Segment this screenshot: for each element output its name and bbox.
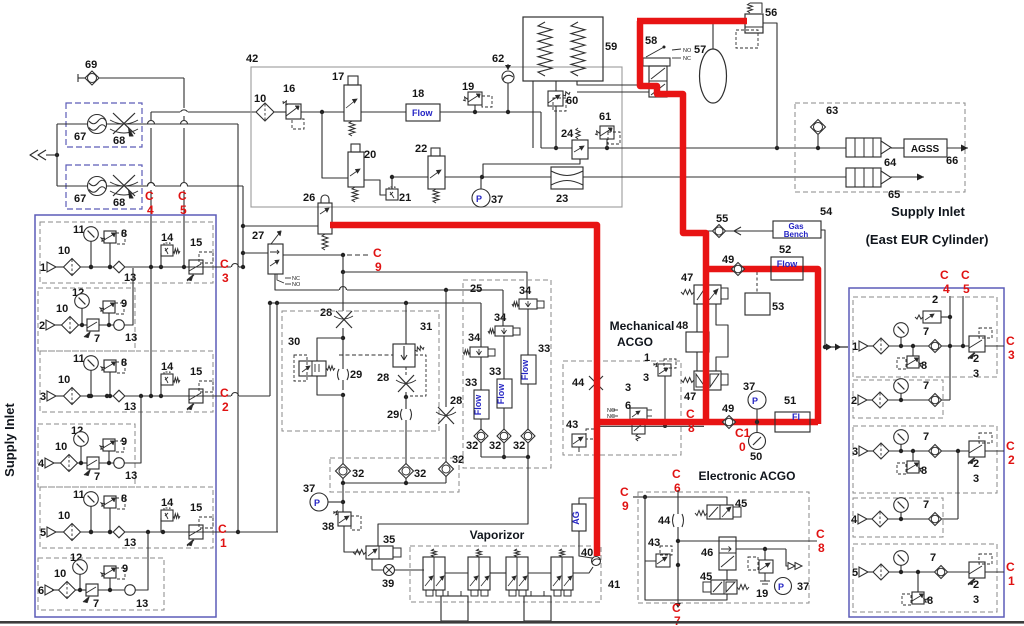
svg-text:32: 32 (513, 440, 525, 452)
svg-text:37: 37 (491, 194, 503, 206)
svg-text:28: 28 (450, 395, 462, 407)
wire elec center column C6-C7 (677, 490, 679, 514)
dashed wire 52-53 (756, 272, 758, 293)
svg-text:8: 8 (121, 493, 127, 505)
svg-text:2: 2 (1008, 453, 1015, 467)
regulator 8 right row3 (907, 461, 919, 473)
svg-text:13: 13 (124, 401, 136, 413)
block 25 dashed box (463, 280, 551, 468)
wire 62 to main (507, 83, 509, 112)
wire row1 flowmeter line (57, 123, 88, 125)
wire bus B to 27 (241, 251, 245, 255)
mechanical ACGO dashed box (563, 361, 681, 455)
svg-text:C: C (672, 467, 681, 481)
wire row3 exit to C2 (203, 395, 231, 397)
svg-text:C: C (220, 386, 229, 400)
wire 56 to AGSS line (763, 23, 777, 148)
box 42 outline (251, 67, 622, 207)
flowmeter 67 row2 (88, 177, 107, 196)
check valve 13 row 3 (113, 390, 125, 402)
svg-text:AG: AG (571, 511, 581, 525)
svg-text:3: 3 (222, 271, 229, 285)
svg-text:15: 15 (190, 366, 202, 378)
relief valve 56 (748, 3, 753, 13)
check 32 c (439, 462, 454, 477)
labels NO NC valve 58 (672, 49, 681, 50)
svg-text:16: 16 (283, 83, 295, 95)
wire row 2 (55, 324, 62, 326)
svg-text:C: C (672, 601, 681, 615)
svg-text:3: 3 (973, 368, 979, 380)
regulator 2/3 right row1 (969, 336, 985, 352)
check 32 b (399, 464, 414, 479)
svg-text:8: 8 (921, 465, 927, 477)
node C5 column x184 (183, 78, 185, 108)
svg-text:2: 2 (222, 400, 229, 414)
group dashed box 28-31 (282, 311, 439, 431)
wire 18 to right (440, 111, 541, 113)
vaporizer valve 4 (560, 549, 565, 557)
svg-text:13: 13 (136, 598, 148, 610)
wire pilot to manifold (664, 376, 666, 426)
gauge 50 (749, 433, 766, 450)
svg-text:19: 19 (756, 588, 768, 600)
regulator 8 right row5 (912, 592, 924, 604)
svg-text:11: 11 (73, 489, 85, 501)
svg-text:14: 14 (161, 361, 174, 373)
solenoid below 6 (632, 419, 645, 434)
regulator 8 right row1 (907, 356, 919, 368)
svg-text:C: C (145, 189, 154, 203)
supply row 6 dashed box (38, 558, 164, 610)
filter right row1 (873, 338, 889, 354)
junction row 5 (89, 530, 93, 534)
junction row 1 (149, 265, 153, 269)
svg-text:35: 35 (383, 534, 395, 546)
filter right row4 (872, 511, 888, 527)
svg-text:7: 7 (674, 614, 681, 626)
svg-text:62: 62 (492, 53, 504, 65)
wire row2 flowmeter line (57, 185, 88, 187)
svg-text:7: 7 (94, 471, 100, 483)
supply row 3 dashed box (40, 351, 213, 412)
svg-text:NC: NC (683, 56, 691, 62)
junction row 3 (159, 394, 163, 398)
wire 27 out to node C9 (283, 254, 343, 256)
svg-text:32: 32 (452, 454, 464, 466)
svg-text:4: 4 (851, 514, 858, 526)
svg-text:11: 11 (73, 353, 85, 365)
orifice 39 (384, 565, 395, 576)
AGSS box 66 (904, 139, 947, 157)
regulator 2/3 right row5 (969, 562, 985, 578)
supply inlet outer box (blue) (35, 215, 216, 617)
svg-text:60: 60 (566, 95, 578, 107)
check 49 top over red (732, 263, 745, 276)
svg-text:28: 28 (377, 372, 389, 384)
right supply outer box (blue) (849, 288, 1004, 617)
svg-text:8: 8 (121, 357, 127, 369)
check valve 13 row 5 (113, 526, 125, 538)
junction row 3 (87, 394, 91, 398)
junction row 1 (159, 265, 163, 269)
regulator 7 row 6 (86, 584, 98, 596)
svg-text:2: 2 (973, 579, 979, 591)
wire branch1 (480, 303, 482, 347)
wire row 6 (52, 589, 59, 591)
orifice 29a (338, 369, 349, 380)
svg-text:55: 55 (716, 213, 728, 225)
svg-text:1: 1 (852, 341, 858, 353)
check valve 13 row 2 (114, 320, 125, 331)
svg-text:C: C (1006, 334, 1015, 348)
right row 1 dashed box (853, 297, 997, 377)
svg-text:15: 15 (190, 237, 202, 249)
wire 35 to 39 (372, 559, 383, 570)
svg-text:10: 10 (55, 441, 67, 453)
svg-text:32: 32 (414, 468, 426, 480)
check 32 branch2 (497, 429, 511, 443)
svg-text:10: 10 (58, 510, 70, 522)
svg-text:15: 15 (190, 502, 202, 514)
wire row6 link to row5 (135, 532, 148, 590)
svg-text:45: 45 (700, 571, 712, 583)
wire C1 riser x277 (276, 303, 278, 532)
check 32 branch1 (474, 429, 488, 443)
wire 59 left leg to 62 node (532, 81, 534, 148)
svg-text:Fl: Fl (792, 412, 800, 422)
svg-text:C: C (220, 257, 229, 271)
labels NC NO valve 27 (277, 274, 284, 283)
svg-text:68: 68 (113, 197, 125, 209)
flowmeter box row1 (blue dashed) (66, 103, 142, 147)
svg-text:30: 30 (288, 336, 300, 348)
wire 27 bottom branch (275, 274, 339, 290)
svg-text:13: 13 (124, 537, 136, 549)
junction row 5 (146, 530, 150, 534)
svg-text:29: 29 (350, 369, 362, 381)
svg-text:19: 19 (462, 81, 474, 93)
svg-text:31: 31 (420, 321, 432, 333)
svg-text:59: 59 (605, 41, 617, 53)
svg-text:1: 1 (644, 352, 650, 364)
svg-text:28: 28 (320, 307, 332, 319)
svg-text:7: 7 (94, 333, 100, 345)
svg-text:Supply Inlet: Supply Inlet (891, 204, 965, 219)
svg-text:Bench: Bench (784, 230, 809, 239)
wire 39 into vaporizer (395, 569, 424, 571)
svg-text:Electronic ACGO: Electronic ACGO (699, 469, 796, 483)
svg-text:33: 33 (465, 377, 477, 389)
gauge P 37 box42 (472, 189, 490, 207)
svg-text:48: 48 (676, 320, 688, 332)
wire y272 line to branch 34c (343, 272, 527, 299)
wire 17 to flow 18 (361, 111, 406, 113)
svg-text:4: 4 (943, 282, 950, 296)
svg-text:8: 8 (921, 360, 927, 372)
svg-text:C: C (620, 485, 629, 499)
svg-text:3: 3 (852, 446, 858, 458)
supply row 2 dashed box (38, 288, 135, 351)
vaporizer valve 3 (515, 549, 520, 557)
check valve 13 row 4 (114, 458, 125, 469)
svg-text:37: 37 (303, 483, 315, 495)
svg-text:NO: NO (292, 282, 301, 288)
svg-text:11: 11 (73, 224, 85, 236)
AGSS tube AG (572, 504, 586, 531)
svg-text:3: 3 (625, 382, 631, 394)
svg-text:42: 42 (246, 53, 258, 65)
sensor 53 (745, 293, 770, 315)
svg-text:34: 34 (468, 332, 481, 344)
wire main corner into AGSS line (540, 112, 542, 148)
svg-text:44: 44 (572, 377, 585, 389)
junction row 1 (108, 265, 112, 269)
svg-text:2: 2 (851, 395, 857, 407)
svg-text:7: 7 (923, 431, 929, 443)
wire gas bench to right box (821, 230, 825, 347)
filter right row5 (873, 564, 889, 580)
svg-text:10: 10 (58, 245, 70, 257)
wire row 1 (56, 266, 64, 268)
right row 3 dashed box (853, 426, 997, 493)
red pipe top to relief 56 (637, 18, 747, 25)
wire branch2 (502, 290, 504, 326)
svg-text:Flow: Flow (496, 383, 506, 404)
wire branch3 (527, 309, 529, 355)
svg-text:AGSS: AGSS (911, 144, 940, 155)
filter right row2 (872, 392, 888, 408)
venturi 23 (551, 167, 583, 189)
column C5 right (962, 296, 964, 345)
flowmeter 67 row1 (88, 115, 107, 134)
wire 31 feed (405, 303, 407, 344)
needle valve 68 row1 (113, 113, 135, 134)
wire row 3 (56, 395, 64, 397)
svg-text:3: 3 (40, 391, 46, 403)
wire main line y112 (274, 111, 286, 113)
svg-text:25: 25 (470, 283, 482, 295)
svg-text:8: 8 (927, 595, 933, 607)
svg-text:56: 56 (765, 7, 777, 19)
svg-text:52: 52 (779, 244, 791, 256)
junction row 1 (182, 265, 186, 269)
right row 4 dashed box (853, 498, 943, 537)
svg-text:1: 1 (40, 262, 46, 274)
wire row 4 (54, 462, 61, 464)
svg-text:13: 13 (124, 272, 136, 284)
svg-text:Flow: Flow (412, 108, 433, 118)
flow tube 51 over red (775, 412, 810, 432)
svg-text:P: P (314, 498, 320, 508)
svg-text:Flow: Flow (520, 359, 530, 380)
solenoid valve 47 bottom (681, 378, 694, 383)
wire manifold y457 to vaporizer feed (481, 456, 528, 458)
svg-text:49: 49 (722, 403, 734, 415)
svg-text:41: 41 (608, 579, 620, 591)
svg-text:7: 7 (923, 380, 929, 392)
svg-text:7: 7 (930, 552, 936, 564)
wire 47-48 column (696, 304, 698, 332)
svg-text:C: C (961, 268, 970, 282)
svg-text:C: C (1006, 439, 1015, 453)
svg-text:17: 17 (332, 71, 344, 83)
electronic ACGO dashed box (638, 492, 809, 603)
wire venturi to AGSS line (583, 176, 846, 178)
dashed box right of 31 (410, 355, 426, 396)
junction right row3 (956, 449, 960, 453)
wire 59 right leg to valve 58 (577, 81, 649, 85)
svg-text:65: 65 (888, 189, 900, 201)
check valve 13 row 6 (125, 585, 136, 596)
svg-text:68: 68 (113, 135, 125, 147)
svg-text:50: 50 (750, 451, 762, 463)
wire right row2 (867, 399, 872, 401)
check row dashed box (left 32 group) (330, 458, 459, 492)
wire from 69 to C5 column (99, 77, 184, 79)
red pipe ACGO loop (706, 269, 818, 424)
svg-text:5: 5 (852, 567, 858, 579)
check valve 13 row 1 (113, 261, 125, 273)
wire elec top line (645, 497, 727, 505)
supply row 4 dashed box (38, 424, 135, 487)
wire node down from C9 to y272 line (342, 255, 344, 272)
svg-text:38: 38 (322, 521, 334, 533)
red pipe from flush valve 26 to vaporizer outlet check 40 (330, 225, 597, 556)
svg-text:32: 32 (466, 440, 478, 452)
wire valve30 connections (317, 338, 343, 361)
wire C8 line (678, 540, 817, 542)
wire right row4 (867, 518, 872, 520)
wire row5 exit to C1 node (203, 531, 238, 533)
svg-text:3: 3 (1008, 348, 1015, 362)
muffler 65 (846, 168, 881, 187)
wire main supply into box 42 (151, 111, 180, 113)
junctions right row1 (948, 344, 952, 348)
wire right row1 (868, 345, 873, 347)
double arrow vent (788, 563, 795, 570)
flow tube 52 over red (771, 257, 803, 280)
svg-text:49: 49 (722, 254, 734, 266)
svg-text:7: 7 (93, 598, 99, 610)
svg-text:Flow: Flow (777, 259, 798, 269)
wire 47b down (706, 390, 708, 421)
junction row 5 (108, 530, 112, 534)
right row 2 dashed box (853, 380, 943, 418)
wire C2 riser x270 (269, 303, 271, 396)
wire y303 distribution line (270, 302, 481, 304)
wire row2 link to row1 (124, 268, 133, 325)
svg-text:53: 53 (772, 301, 784, 313)
svg-text:2: 2 (973, 353, 979, 365)
regulator 60 (548, 91, 563, 106)
junction row 1 (89, 265, 93, 269)
svg-text:P: P (752, 396, 758, 406)
bracket right of 48 (716, 304, 728, 371)
wire under checks (342, 478, 344, 483)
wire 46 to 45b (726, 570, 728, 580)
check 32 branch3 (521, 429, 535, 443)
svg-text:ACGO: ACGO (617, 335, 653, 349)
svg-text:14: 14 (161, 232, 174, 244)
bottom border bar (0, 621, 1024, 624)
wire exhaust outlet left (46, 154, 57, 156)
svg-text:1: 1 (1008, 574, 1015, 588)
svg-text:8: 8 (818, 541, 825, 555)
regulator 7 row 2 (87, 319, 99, 331)
wire left riser to flowmeter rows (56, 124, 58, 186)
svg-text:2: 2 (973, 458, 979, 470)
svg-text:9: 9 (622, 499, 629, 513)
svg-text:63: 63 (826, 105, 838, 117)
check 32 a (336, 464, 351, 479)
svg-text:P: P (778, 582, 784, 592)
svg-text:67: 67 (74, 131, 86, 143)
svg-text:1: 1 (220, 536, 227, 550)
junction on red manifold (755, 420, 759, 424)
svg-text:44: 44 (658, 515, 671, 527)
dashed pilot 30-31 (339, 354, 393, 356)
flowmeter box row2 (blue dashed) (66, 165, 142, 209)
svg-text:C: C (178, 189, 187, 203)
wire 59 mid leg through 60 (555, 81, 557, 91)
svg-text:39: 39 (382, 578, 394, 590)
wire row4 link to row3 (124, 396, 141, 463)
svg-text:33: 33 (538, 343, 550, 355)
wire AGSS collect line y148 (541, 147, 572, 149)
svg-text:C: C (940, 268, 949, 282)
supply row 5 dashed box (40, 487, 213, 548)
svg-text:26: 26 (303, 192, 315, 204)
arrows into right supply box (825, 346, 848, 348)
relief 19 elec (764, 549, 766, 560)
accumulator 59 (523, 17, 603, 81)
svg-text:3: 3 (973, 594, 979, 606)
gauge right row3 (894, 430, 909, 445)
wire x446 (445, 290, 447, 407)
svg-text:47: 47 (681, 272, 693, 284)
svg-text:(East EUR Cylinder): (East EUR Cylinder) (866, 232, 989, 247)
svg-text:24: 24 (561, 128, 574, 140)
svg-text:10: 10 (56, 303, 68, 315)
wire branch to 20 (322, 112, 348, 178)
vaporizer valve 2 (477, 549, 482, 557)
svg-text:C: C (1006, 560, 1015, 574)
svg-text:21: 21 (399, 192, 411, 204)
svg-text:33: 33 (489, 366, 501, 378)
wires AG tube (579, 498, 594, 504)
svg-text:10: 10 (54, 568, 66, 580)
wire right row5 (868, 571, 873, 573)
wire 20 to 21 (364, 180, 386, 195)
wire 64 to AGSS box (891, 147, 904, 149)
gauge right row4 (894, 498, 909, 513)
svg-text:C1: C1 (735, 426, 751, 440)
exhaust double-arrow symbol (30, 150, 38, 160)
gauge P 37 elec (775, 578, 792, 595)
svg-text:2: 2 (39, 320, 45, 332)
junction row 3 (105, 394, 109, 398)
svg-text:22: 22 (415, 143, 427, 155)
svg-text:13: 13 (125, 332, 137, 344)
svg-text:P: P (476, 194, 482, 204)
svg-text:46: 46 (701, 547, 713, 559)
AGSS dashed box (795, 103, 965, 192)
svg-text:37: 37 (797, 581, 809, 593)
svg-text:54: 54 (820, 206, 833, 218)
column C4 right (949, 296, 951, 400)
svg-text:13: 13 (125, 470, 137, 482)
